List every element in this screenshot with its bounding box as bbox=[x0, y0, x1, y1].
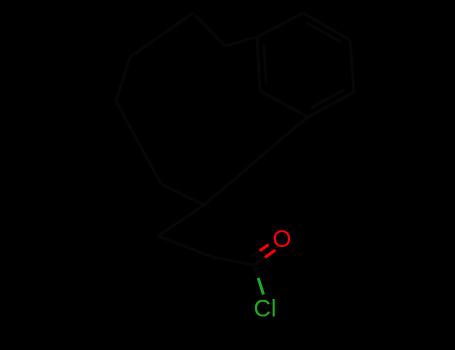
bond C10-C9 (long left edge) bbox=[116, 101, 161, 184]
bond C9-C8 bbox=[161, 184, 204, 205]
C-Cl single bond, carbon half (black) bbox=[254, 265, 258, 278]
bond C5-C7a bbox=[280, 117, 308, 140]
C=O double bond, main line carbon half (black) bbox=[254, 258, 265, 266]
bond C11-C10 (left ring edge) bbox=[116, 57, 130, 101]
bond C4-C5 (aromatic ring edge) bbox=[308, 92, 354, 117]
bond C7b-C8 bbox=[204, 172, 243, 205]
double bond inner line C2-C3 bbox=[306, 23, 340, 42]
bond C12-C11 (upper-left ring edge) bbox=[130, 13, 193, 57]
bond C14-C15 bbox=[158, 236, 212, 257]
bond C2-C3 (aromatic ring edge) bbox=[303, 13, 350, 40]
double bond inner line C6-C1 bbox=[264, 45, 266, 84]
bond C1-C2 (aromatic ring edge) bbox=[257, 13, 303, 37]
bond C5-C6 (aromatic ring edge) bbox=[260, 91, 308, 117]
bond C8-C14 bbox=[158, 205, 204, 236]
C=O double bond, parallel line oxygen half (red) bbox=[260, 245, 269, 251]
bond C3-C4 (aromatic ring edge) bbox=[350, 40, 354, 92]
C=O double bond, main line oxygen half (red) bbox=[265, 250, 276, 258]
svg-text:O: O bbox=[273, 226, 292, 253]
svg-text:Cl: Cl bbox=[254, 296, 277, 323]
bond C7a-C7b bbox=[243, 140, 280, 172]
bond C13-C1 (link to aromatic ring) bbox=[225, 37, 257, 46]
bond C12-C13 bbox=[193, 13, 225, 46]
double bond inner line C4-C5 bbox=[311, 90, 344, 108]
bond C15-C16 (to carbonyl carbon) bbox=[212, 257, 254, 265]
bond C6-C1 (aromatic ring edge) bbox=[257, 37, 260, 91]
C=O double bond, parallel line carbon half (black) bbox=[251, 251, 260, 257]
C-Cl single bond, chlorine half (green) bbox=[258, 278, 263, 295]
